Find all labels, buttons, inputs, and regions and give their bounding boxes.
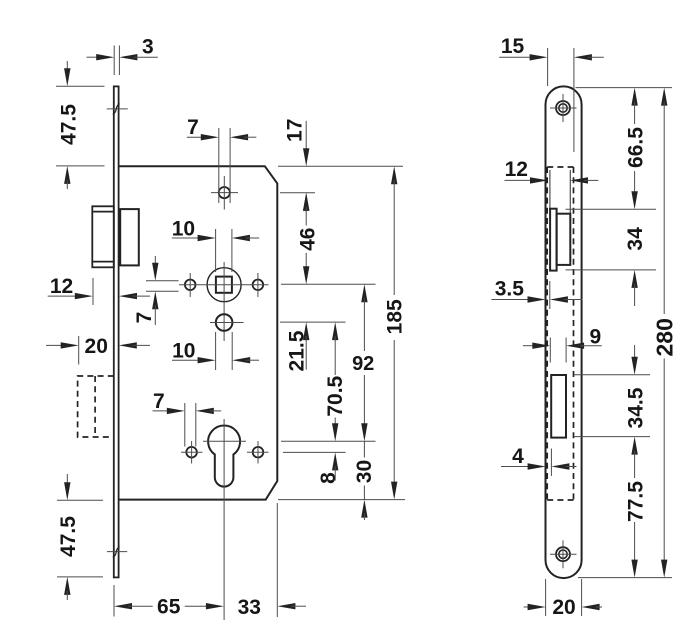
dimension 65/33: extension lines (113, 585, 115, 617)
svg-text:46: 46 (296, 228, 319, 251)
dimension 20 right: extension lines (545, 579, 547, 616)
extension line: cylinder side holes row, right (283, 451, 346, 453)
dimension 66.5: line, arrows (631, 88, 637, 106)
euro profile cylinder hole (208, 425, 240, 486)
svg-text:10: 10 (172, 217, 195, 240)
dimension 7 rotated: arrows (154, 256, 156, 267)
dimension 77.5: line, arrows (631, 437, 637, 455)
svg-text:12: 12 (505, 158, 528, 181)
svg-text:21.5: 21.5 (285, 330, 308, 371)
latch bolt tail (inside case) (120, 209, 139, 265)
svg-text:280: 280 (651, 318, 677, 356)
dimension 20: leader, arrows (46, 344, 65, 346)
svg-text:3.5: 3.5 (495, 278, 525, 301)
deadbolt (retracted, dashed) (78, 376, 114, 437)
top fixing hole (219, 187, 230, 198)
lock case outline (chamfered right corners) (119, 166, 278, 499)
svg-text:92: 92 (352, 353, 374, 375)
follower side hole stub centerlines (189, 273, 191, 297)
latch bolt head (protrudes left of faceplate) (92, 206, 114, 267)
bottom screw hole centerlines (562, 540, 564, 568)
svg-text:70.5: 70.5 (324, 375, 347, 416)
dimension 3.5: leader, arrows (491, 299, 531, 301)
top screw hole centerlines (562, 94, 564, 122)
follower side hole left (185, 280, 196, 291)
hole below follower (216, 314, 233, 331)
dimension 3.5: extension line (549, 281, 551, 309)
top hole centerlines (211, 192, 238, 194)
svg-text:10: 10 (172, 339, 195, 362)
dimension 34.5: arrows and label (634, 345, 636, 361)
svg-text:3: 3 (142, 36, 154, 59)
svg-text:66.5: 66.5 (624, 127, 647, 168)
extension line: case bottom, right (278, 499, 405, 501)
dimension 15: extension lines (547, 48, 549, 86)
dimension 4: extension line (550, 449, 552, 477)
svg-text:4: 4 (512, 445, 524, 468)
svg-text:15: 15 (501, 35, 525, 58)
dimension 10 upper: extension lines (215, 229, 217, 272)
faceplate break mark (bottom) (107, 551, 127, 553)
svg-text:9: 9 (589, 325, 601, 348)
dimension 46: line, arrows (303, 193, 309, 211)
svg-text:7: 7 (133, 312, 156, 324)
cylinder side hole centerlines (181, 451, 203, 453)
dimension 3: dimension line and arrows (87, 56, 101, 58)
extension line: case top, left (56, 165, 105, 167)
top screw hole (556, 101, 570, 115)
extension line: plate bottom, right (578, 577, 672, 579)
svg-text:47.5: 47.5 (57, 516, 80, 557)
dimension 92: line, arrows (361, 284, 367, 302)
svg-text:77.5: 77.5 (625, 481, 648, 522)
dimension 34: lower arrow and label (631, 270, 637, 288)
svg-text:65: 65 (157, 596, 181, 619)
dimension 10 lower: leader, arrows (172, 359, 202, 361)
dimension 9: extension lines (549, 338, 551, 363)
dimension 15: leader, arrows (499, 56, 534, 58)
dimension 9: arrows, leader (523, 345, 537, 347)
svg-text:33: 33 (238, 596, 261, 619)
below-hole horizontal centerline (210, 322, 244, 324)
follower square spindle hole (216, 277, 232, 293)
dimension 17: line, arrows (305, 121, 307, 152)
cylinder side hole left (186, 447, 197, 458)
extension line: faceplate bottom, left (57, 576, 103, 578)
dimension 7 cylinder: extension lines (184, 403, 186, 447)
cylinder vertical centerline (extends to bottom dimension) (223, 419, 225, 620)
dimension 30: line, arrows, label (363, 441, 365, 457)
svg-text:7: 7 (153, 390, 165, 413)
dimension 21.5: lower arrow and label (303, 322, 309, 340)
dimension 280: line, arrows (661, 88, 667, 106)
faceplate break mark (top) (107, 108, 128, 110)
dimension 8: arrow and label (332, 452, 338, 470)
dimension 10 lower: extension lines (215, 332, 217, 370)
dimension 33: label and right arrow (277, 603, 295, 609)
dimension 20: extension line (78, 336, 80, 365)
svg-text:20: 20 (552, 596, 575, 619)
faceplate front view (stadium outline) (546, 86, 582, 578)
svg-text:8: 8 (317, 472, 340, 484)
extension line: plate top, right (576, 87, 673, 89)
bottom screw hole (556, 547, 570, 561)
dimension 10 upper: leader, arrows (172, 237, 202, 239)
dimension 7 rotated: extension lines (146, 280, 179, 282)
svg-text:17: 17 (283, 119, 306, 142)
extension line: latch top, right (566, 208, 657, 210)
svg-text:12: 12 (50, 275, 73, 298)
extension line: deadbolt bottom, right (574, 436, 650, 438)
extension line: faceplate top, left (56, 85, 105, 87)
deadbolt cutout (551, 375, 566, 438)
dimension 7 cylinder: leader, arrows (153, 410, 171, 412)
follower column vertical centerline (223, 262, 225, 341)
svg-text:47.5: 47.5 (58, 104, 81, 145)
extension line: below-hole row, right (280, 321, 346, 323)
svg-text:34.5: 34.5 (624, 387, 647, 428)
dimension 47.5 bottom: line and arrows (66, 474, 68, 486)
extension line: latch bottom, right (566, 269, 657, 271)
latch bolt head front (557, 214, 571, 265)
latch opening edges (549, 170, 551, 209)
extension line: follower row, right (281, 283, 376, 285)
extension line: case bottom, left (57, 499, 103, 501)
lock case behind plate (dashed) (546, 167, 548, 500)
dimension 12 right: leader, arrows (505, 179, 535, 181)
dimension 65: line, arrows, label (114, 603, 132, 609)
extension line: cylinder row, right (281, 440, 376, 442)
svg-text:30: 30 (353, 460, 376, 483)
dimension 7 top: extension lines (218, 128, 220, 203)
dimension 47.5 top: line and arrows (66, 61, 68, 73)
svg-text:34: 34 (624, 227, 647, 251)
dimension 12 left: leader, arrows (48, 295, 79, 297)
extension line: case top, right (278, 165, 403, 167)
dimension 70.5: line, arrows (332, 322, 338, 340)
svg-text:20: 20 (85, 335, 108, 358)
dimension 4: leader, arrows (501, 466, 532, 468)
faceplate (side view, thin vertical plate) (114, 86, 119, 577)
follower side hole right (253, 280, 264, 291)
follower row horizontal centerline (179, 284, 269, 286)
svg-text:7: 7 (187, 116, 199, 139)
dimension 185: line, arrows (391, 166, 397, 184)
dimension 3: extension lines (113, 46, 115, 76)
latch bolt front strip (550, 209, 557, 271)
follower circle (207, 268, 241, 302)
dimension 12 left: extension line (92, 278, 94, 305)
cylinder horizontal centerline (203, 440, 246, 442)
cylinder side hole right (253, 447, 264, 458)
extension line: top hole, right (280, 192, 315, 194)
svg-text:185: 185 (383, 299, 406, 334)
extension line: deadbolt top, right (574, 374, 650, 376)
dimension 20 right: leader, arrows (524, 606, 532, 608)
dimension 7 top: leader, arrows (187, 136, 205, 138)
